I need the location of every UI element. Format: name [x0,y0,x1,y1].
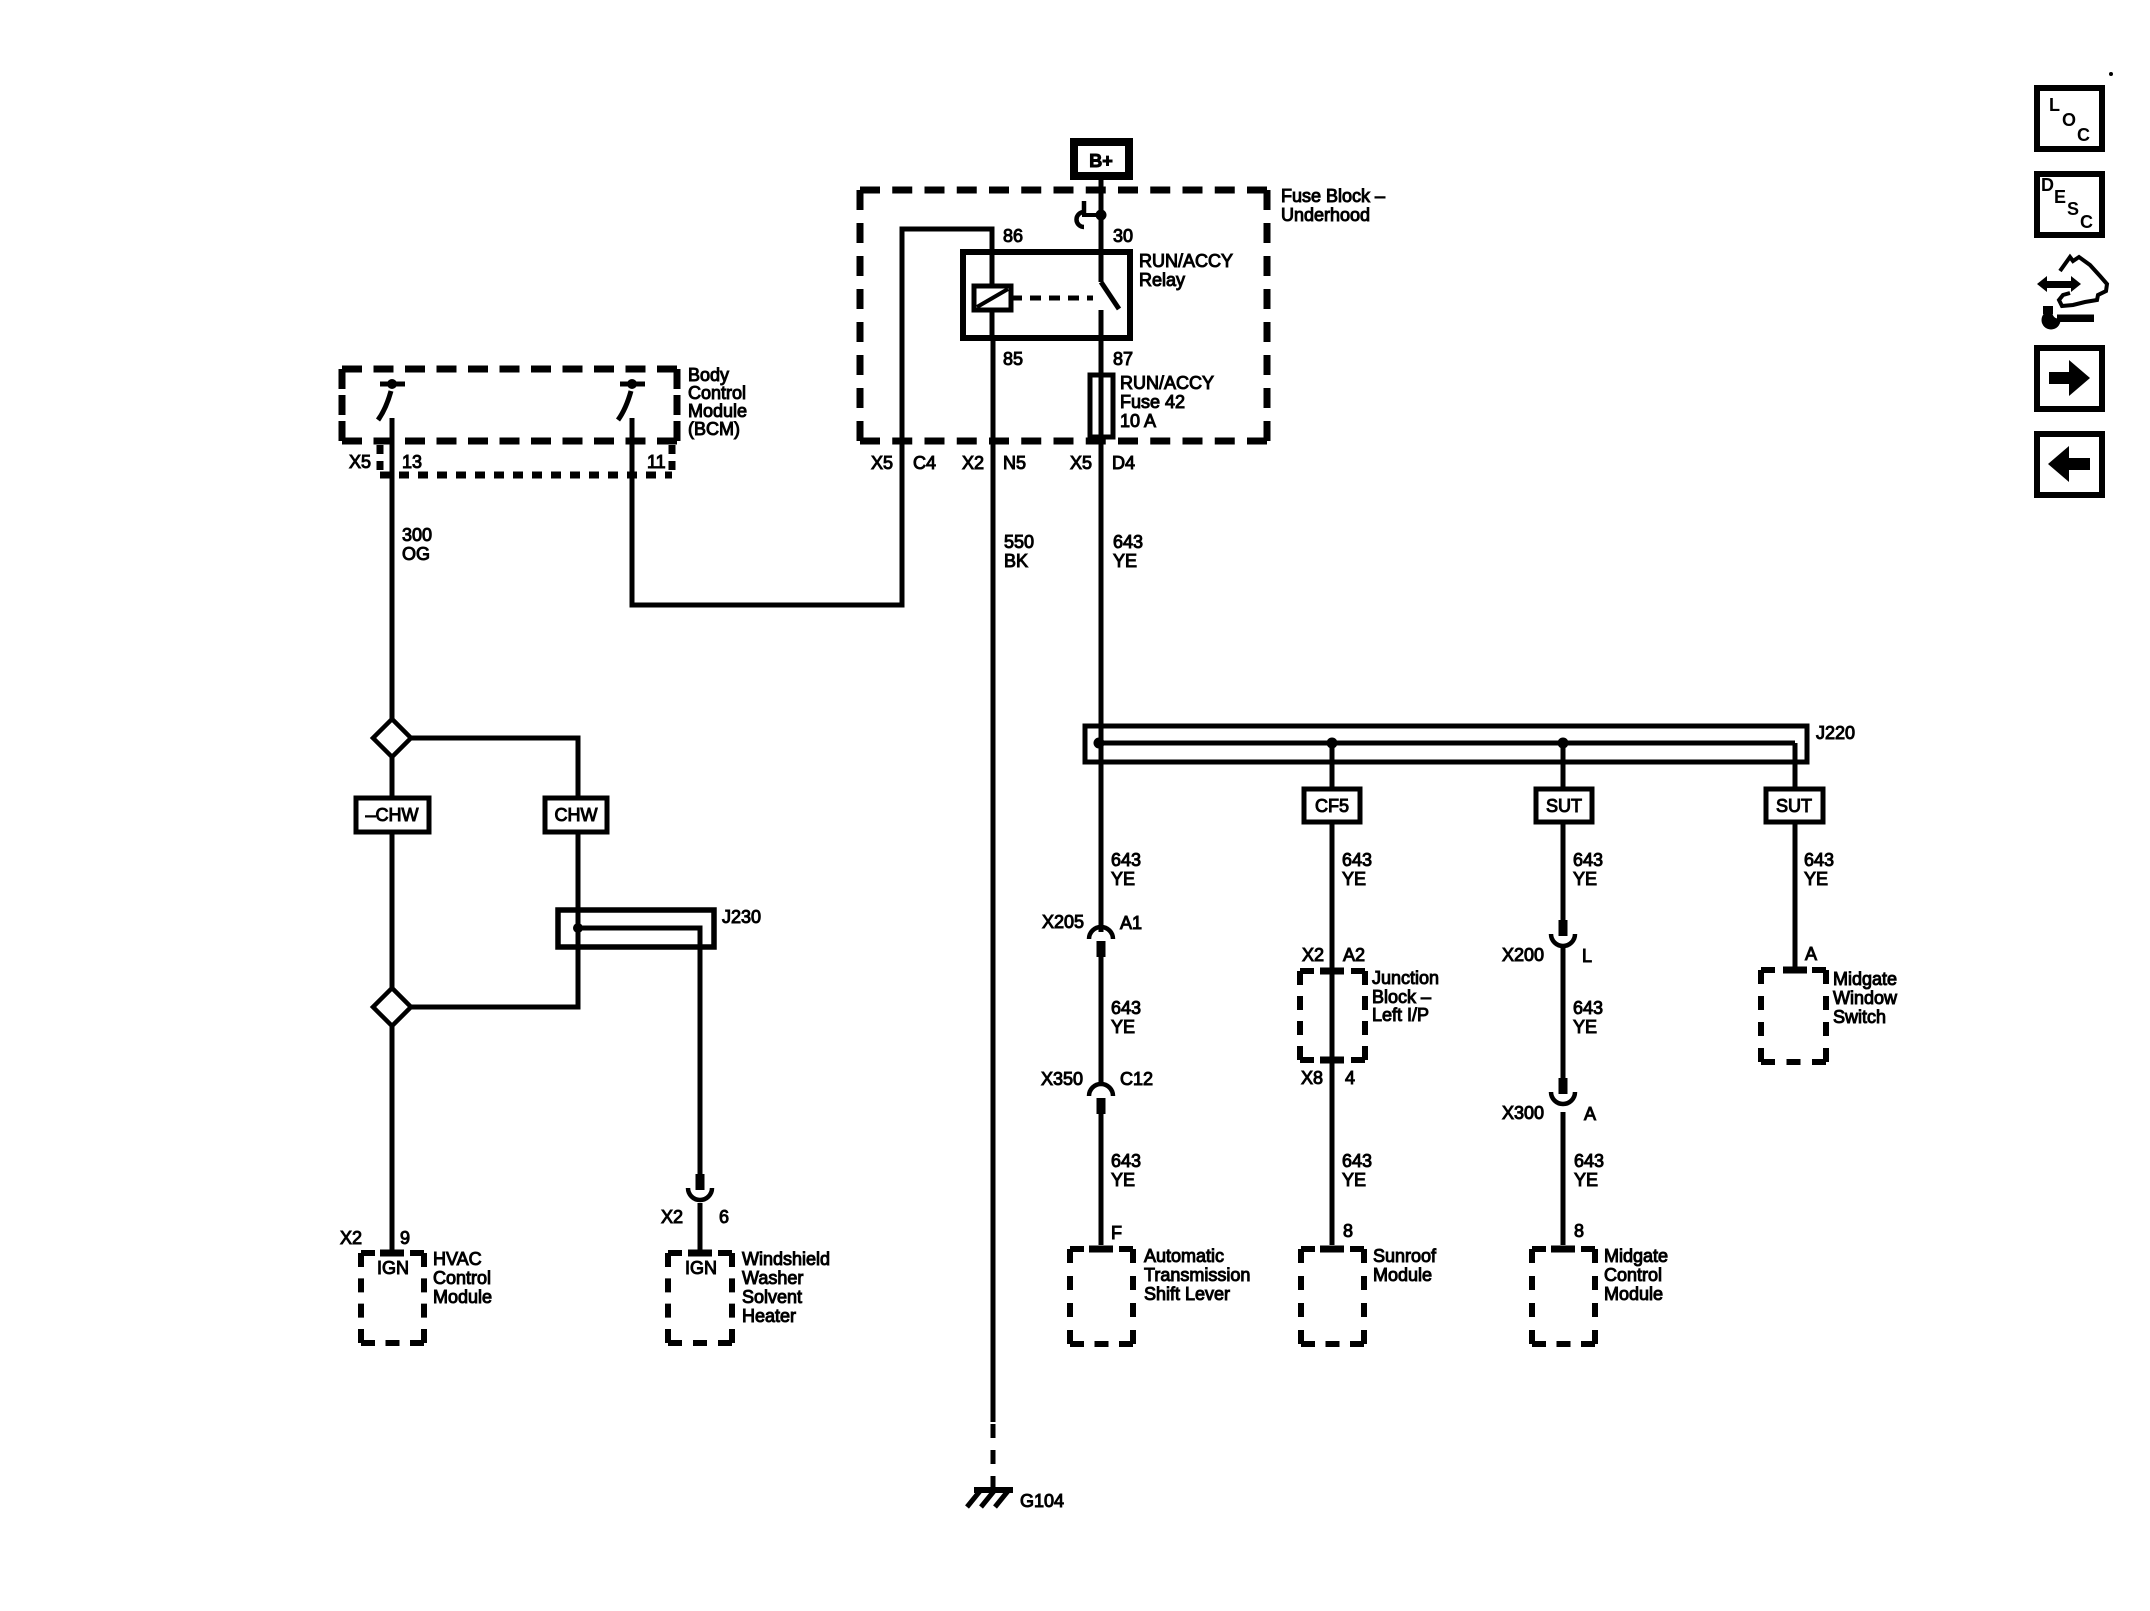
svg-text:X2: X2 [661,1207,683,1227]
svg-text:643: 643 [1111,1151,1141,1171]
svg-text:D: D [2041,175,2054,195]
svg-text:YE: YE [1573,1017,1597,1037]
svg-text:Module: Module [1604,1284,1663,1304]
svg-text:643: 643 [1111,998,1141,1018]
svg-text:Module: Module [1373,1265,1432,1285]
svg-text:Solvent: Solvent [742,1287,802,1307]
svg-text:YE: YE [1342,869,1366,889]
svg-text:RUN/ACCY: RUN/ACCY [1120,373,1214,393]
svg-text:D4: D4 [1112,453,1135,473]
svg-text:X350: X350 [1041,1069,1083,1089]
svg-text:643: 643 [1573,850,1603,870]
svg-text:6: 6 [719,1207,729,1227]
svg-text:Block –: Block – [1372,987,1431,1007]
svg-text:X5: X5 [871,453,893,473]
svg-text:X2: X2 [340,1228,362,1248]
svg-text:Control: Control [433,1268,491,1288]
svg-text:Fuse Block –: Fuse Block – [1281,186,1385,206]
svg-text:643: 643 [1804,850,1834,870]
svg-text:643: 643 [1342,850,1372,870]
svg-text:E: E [2054,187,2066,207]
svg-text:Windshield: Windshield [742,1249,830,1269]
svg-text:C: C [2080,212,2093,232]
svg-text:YE: YE [1342,1170,1366,1190]
svg-text:YE: YE [1113,551,1137,571]
svg-text:X200: X200 [1502,945,1544,965]
svg-text:Fuse 42: Fuse 42 [1120,392,1185,412]
svg-text:C12: C12 [1120,1069,1153,1089]
svg-text:Left I/P: Left I/P [1372,1005,1429,1025]
svg-text:C: C [2077,125,2090,145]
svg-text:CF5: CF5 [1315,796,1349,816]
svg-text:10 A: 10 A [1120,411,1156,431]
svg-text:J220: J220 [1816,723,1855,743]
svg-text:Automatic: Automatic [1144,1246,1224,1266]
svg-text:Underhood: Underhood [1281,205,1370,225]
svg-text:4: 4 [1345,1068,1355,1088]
svg-text:A2: A2 [1343,945,1365,965]
svg-text:Switch: Switch [1833,1007,1886,1027]
svg-text:F: F [1111,1223,1122,1243]
svg-text:IGN: IGN [377,1258,409,1278]
svg-text:YE: YE [1111,1017,1135,1037]
svg-text:X2: X2 [962,453,984,473]
svg-text:Relay: Relay [1139,270,1185,290]
svg-text:X300: X300 [1502,1103,1544,1123]
svg-text:A: A [1584,1104,1596,1124]
svg-text:X2: X2 [1302,945,1324,965]
svg-text:B+: B+ [1089,151,1113,171]
svg-text:J230: J230 [722,907,761,927]
svg-text:OG: OG [402,544,430,564]
svg-text:Midgate: Midgate [1833,969,1897,989]
svg-text:N5: N5 [1003,453,1026,473]
svg-text:YE: YE [1574,1170,1598,1190]
svg-text:RUN/ACCY: RUN/ACCY [1139,251,1233,271]
svg-text:S: S [2067,199,2079,219]
svg-text:86: 86 [1003,226,1023,246]
svg-text:SUT: SUT [1546,796,1582,816]
svg-text:Transmission: Transmission [1144,1265,1250,1285]
svg-text:C4: C4 [913,453,936,473]
svg-text:8: 8 [1574,1221,1584,1241]
svg-text:643: 643 [1342,1151,1372,1171]
svg-text:Module: Module [433,1287,492,1307]
svg-text:X5: X5 [1070,453,1092,473]
svg-text:X205: X205 [1042,912,1084,932]
svg-text:Control: Control [688,383,746,403]
svg-text:Midgate: Midgate [1604,1246,1668,1266]
svg-text:550: 550 [1004,532,1034,552]
svg-text:A: A [1805,944,1817,964]
svg-text:(BCM): (BCM) [688,419,740,439]
svg-text:O: O [2062,110,2076,130]
svg-text:643: 643 [1111,850,1141,870]
svg-text:643: 643 [1574,1151,1604,1171]
svg-text:X8: X8 [1301,1068,1323,1088]
svg-text:9: 9 [400,1228,410,1248]
svg-text:30: 30 [1113,226,1133,246]
svg-text:85: 85 [1003,349,1023,369]
svg-text:YE: YE [1111,869,1135,889]
svg-text:–CHW: –CHW [366,805,419,825]
svg-text:Control: Control [1604,1265,1662,1285]
svg-text:11: 11 [647,452,666,472]
svg-text:87: 87 [1113,349,1133,369]
svg-text:SUT: SUT [1776,796,1812,816]
svg-text:IGN: IGN [685,1258,717,1278]
svg-text:8: 8 [1343,1221,1353,1241]
svg-text:X5: X5 [349,452,371,472]
svg-text:L: L [1582,946,1592,966]
svg-text:BK: BK [1004,551,1028,571]
svg-text:G104: G104 [1020,1491,1064,1511]
svg-text:A1: A1 [1120,913,1142,933]
svg-text:YE: YE [1111,1170,1135,1190]
svg-text:CHW: CHW [555,805,598,825]
svg-text:Module: Module [688,401,747,421]
svg-text:13: 13 [402,452,422,472]
svg-text:643: 643 [1113,532,1143,552]
svg-text:Washer: Washer [742,1268,803,1288]
svg-text:Junction: Junction [1372,968,1439,988]
svg-text:YE: YE [1804,869,1828,889]
svg-text:Heater: Heater [742,1306,796,1326]
svg-text:Window: Window [1833,988,1898,1008]
svg-text:HVAC: HVAC [433,1249,482,1269]
svg-text:L: L [2049,95,2060,115]
svg-text:Sunroof: Sunroof [1373,1246,1437,1266]
svg-text:Shift Lever: Shift Lever [1144,1284,1230,1304]
svg-text:300: 300 [402,525,432,545]
svg-text:Body: Body [688,365,729,385]
svg-text:643: 643 [1573,998,1603,1018]
svg-text:YE: YE [1573,869,1597,889]
